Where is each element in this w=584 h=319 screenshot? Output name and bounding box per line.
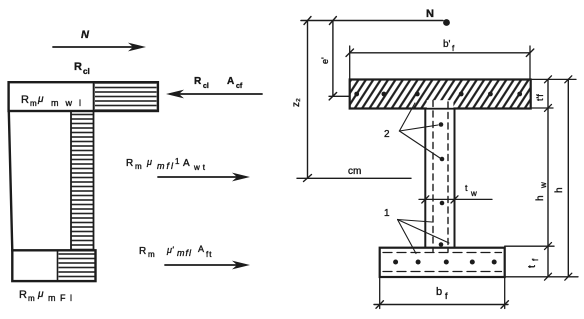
svg-text:b': b': [443, 39, 451, 50]
svg-text:cm: cm: [348, 166, 361, 177]
svg-text:2: 2: [384, 129, 390, 140]
bottom flange: [380, 248, 505, 277]
hatched part of top band: [95, 84, 157, 110]
label 2 with leader lines (web/flange rebar): [384, 103, 440, 158]
svg-text:R: R: [21, 94, 29, 106]
svg-text:m: m: [148, 250, 155, 259]
N reference line (top): [301, 8, 450, 26]
svg-text:1: 1: [175, 157, 180, 166]
label Rm mu mFl (bottom): [19, 289, 77, 303]
svg-text:A: A: [198, 244, 204, 254]
svg-text:m: m: [30, 99, 37, 108]
svg-text:A: A: [227, 76, 234, 87]
svg-text:f: f: [452, 44, 455, 53]
web of cross-section: [425, 101, 454, 252]
svg-text:w: w: [470, 189, 477, 198]
web rebar dots: [439, 122, 444, 127]
left column outline: [9, 111, 13, 251]
rebar dots in top flange: [354, 92, 359, 97]
svg-text:f: f: [531, 258, 540, 261]
dimension tw (web thickness): [419, 183, 492, 203]
svg-text:ft: ft: [206, 250, 212, 259]
svg-text:cf: cf: [236, 83, 243, 90]
svg-text:mfl: mfl: [157, 161, 175, 171]
svg-text:μ: μ: [146, 157, 152, 167]
svg-text:R: R: [19, 289, 27, 301]
svg-text:mfl: mfl: [177, 248, 192, 258]
svg-text:f: f: [445, 291, 448, 301]
svg-text:h: h: [554, 187, 565, 193]
svg-text:1: 1: [384, 208, 390, 219]
tick at z line: [304, 17, 311, 25]
svg-text:μ: μ: [37, 289, 44, 300]
svg-text:t'f: t'f: [535, 94, 545, 101]
svg-text:R: R: [139, 246, 146, 257]
svg-text:t: t: [465, 183, 468, 193]
label Rcl (above left band): [74, 61, 90, 76]
rebar dots in bottom flange: [393, 260, 398, 265]
tick at e' line: [329, 17, 336, 25]
svg-text:R: R: [194, 76, 202, 87]
dimension e' (vertical): [320, 21, 350, 100]
label 1 with leader lines (bottom rebar): [384, 208, 449, 254]
dimension b'f (top): [346, 39, 534, 80]
svg-text:μ: μ: [37, 94, 44, 105]
dimension line hw / t'f / tf (inner right vertical): [545, 76, 552, 280]
svg-text:e': e': [320, 57, 330, 64]
svg-text:wt: wt: [193, 163, 208, 172]
svg-text:N: N: [81, 29, 90, 41]
arrow Rm mu'mfl Aft (bottom, points right): [139, 244, 250, 269]
label hw (rotated): [535, 182, 548, 201]
svg-text:A: A: [183, 158, 190, 169]
svg-text:cl: cl: [83, 67, 90, 76]
svg-text:μ': μ': [166, 245, 174, 255]
web opening notch in flange hatch: [427, 100, 454, 108]
dimension line h (outer right vertical): [565, 76, 572, 280]
svg-text:h: h: [535, 195, 546, 201]
point N dot: [443, 19, 450, 26]
hatched part of bottom band: [59, 252, 95, 281]
dimension z (far left vertical): [291, 21, 312, 182]
svg-text:mFl: mFl: [48, 293, 77, 303]
top flange (hatched, with rebar dots): [350, 80, 531, 109]
svg-text:mwl: mwl: [51, 98, 88, 108]
svg-text:m: m: [135, 162, 142, 171]
dimension bf (bottom): [374, 277, 508, 309]
svg-text:w: w: [539, 182, 548, 189]
svg-text:R: R: [74, 61, 82, 73]
arrow Rm mu mfl1 Awt (middle, points right): [126, 157, 250, 181]
arrow N (top force): [53, 29, 146, 51]
label tf (rotated, bottom flange thickness): [527, 258, 540, 268]
top band outline (stress block flange): [9, 82, 158, 111]
svg-text:t: t: [527, 265, 538, 268]
svg-text:z₂: z₂: [291, 98, 302, 107]
arrow Rcl Acf (points left into top band): [166, 76, 262, 98]
svg-text:m: m: [28, 294, 35, 303]
label Rm mu mwl: [21, 94, 88, 108]
svg-text:R: R: [126, 158, 133, 169]
svg-text:b: b: [436, 286, 442, 298]
dashed reinforcement lines in web: [432, 101, 434, 252]
divider line in top band: [93, 82, 95, 111]
centroid line cm: [297, 166, 411, 178]
divider in bottom band: [57, 250, 59, 281]
right side extension lines: [505, 79, 578, 276]
bottom band outline: [12, 250, 95, 281]
web stress column (hatched): [71, 111, 94, 251]
svg-text:cl: cl: [203, 83, 209, 90]
svg-text:N: N: [426, 8, 434, 20]
